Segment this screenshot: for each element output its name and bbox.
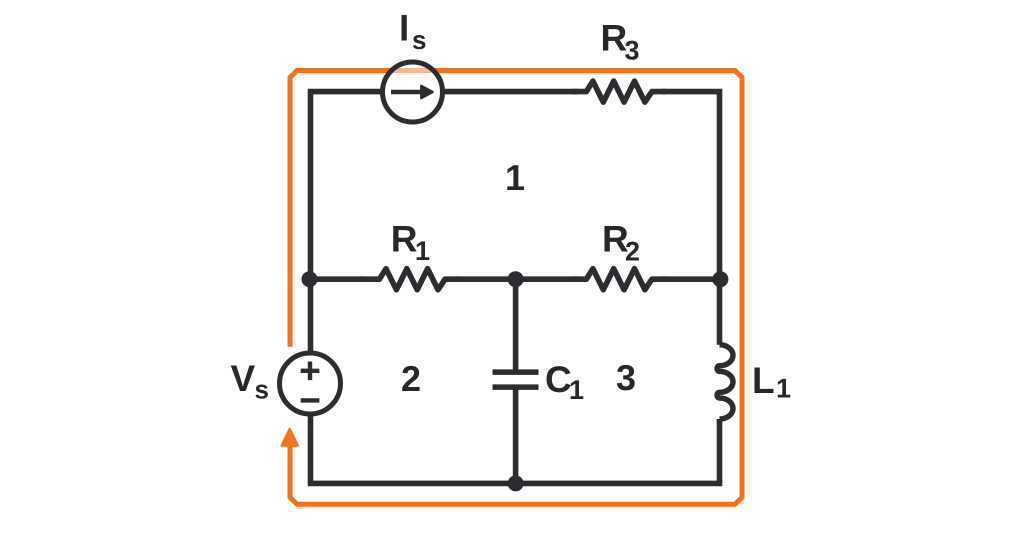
svg-text:3: 3: [625, 35, 640, 65]
svg-text:3: 3: [616, 357, 636, 398]
svg-text:R: R: [601, 17, 628, 58]
wire bottom-left and Vs stub: [311, 416, 516, 483]
svg-text:C: C: [545, 359, 572, 400]
wire capacitor top: [513, 279, 519, 371]
wire top-right and right upper: [662, 92, 720, 345]
svg-text:1: 1: [415, 236, 430, 266]
loop arrow: [282, 429, 298, 446]
resistor R1: [360, 269, 460, 290]
wire capacitor bottom: [513, 388, 519, 483]
svg-text:2: 2: [401, 358, 421, 399]
svg-text:1: 1: [505, 157, 525, 198]
resistor R3: [572, 81, 666, 102]
current source Is: [383, 62, 443, 122]
svg-text:s: s: [412, 25, 426, 55]
voltage source Vs: [280, 353, 341, 414]
svg-text:1: 1: [569, 375, 584, 405]
node right: [712, 271, 728, 287]
resistor R2: [572, 269, 666, 290]
wire right lower and bottom-right: [516, 419, 720, 483]
node bottom: [508, 475, 524, 491]
wire left and top-left: [311, 92, 381, 351]
inductor L1: [717, 345, 733, 419]
capacitor C1: [493, 372, 539, 387]
node center: [508, 271, 524, 287]
svg-text:s: s: [255, 375, 269, 405]
wire middle center: [455, 276, 578, 282]
svg-text:L: L: [752, 360, 775, 401]
svg-text:R: R: [391, 219, 418, 260]
wire top middle: [445, 89, 579, 95]
svg-text:V: V: [231, 358, 256, 399]
supermesh loop: [290, 71, 742, 505]
wire middle left: [310, 276, 366, 282]
node left: [302, 271, 318, 287]
wire middle right: [662, 276, 720, 282]
svg-text:2: 2: [625, 236, 640, 266]
svg-text:1: 1: [776, 373, 791, 403]
svg-text:I: I: [399, 7, 409, 48]
